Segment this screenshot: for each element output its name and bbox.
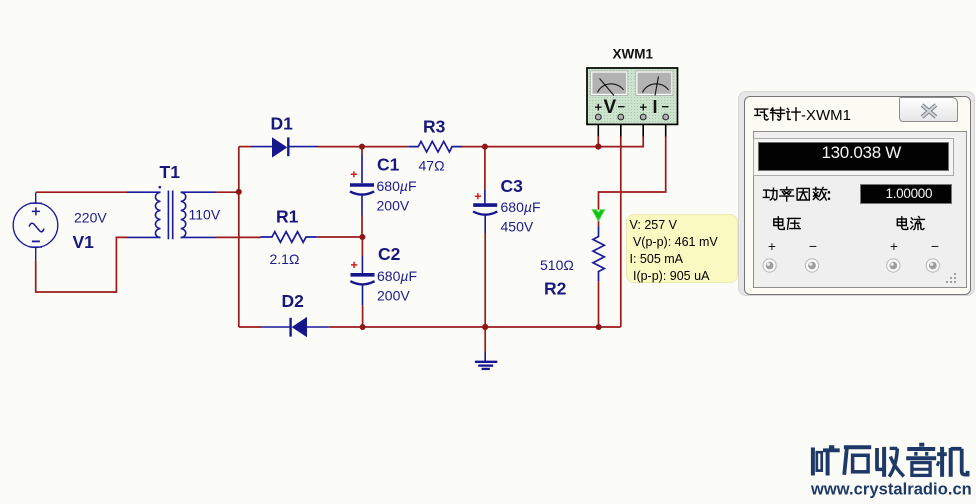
watermark logo kuang shi shou yin ji <box>813 445 968 477</box>
wire bottom rail left of D2 <box>239 326 262 328</box>
wire C3 top stub <box>484 147 486 190</box>
terminal I+ <box>887 259 900 272</box>
glyph shi <box>844 445 871 449</box>
terminal V- <box>805 259 818 272</box>
dialog content panel <box>753 131 967 288</box>
junction R3 C3 top rail <box>482 144 488 150</box>
probe tooltip yellow box <box>626 214 738 284</box>
wire bottom rail D2 to V- corner <box>329 326 621 328</box>
dialog main display <box>758 142 950 172</box>
wire V1 bottom loop <box>36 237 127 292</box>
wire top rail left of D1 <box>239 146 251 148</box>
wire R1 rail from T1 secondary bottom <box>216 236 261 238</box>
wattmeter dialog XWM1 <box>738 91 975 296</box>
wire R1 right to C node <box>317 236 363 238</box>
dialog plus minus terminal marks <box>765 239 779 254</box>
wire V1 top to T1 primary <box>36 191 127 193</box>
wire vertical bus D1-D2 <box>238 147 240 327</box>
dialog title text <box>755 108 800 121</box>
wire R2 bottom to rail <box>598 281 600 327</box>
wire C1 top stub <box>361 147 363 154</box>
junction R2 bottom rail <box>596 324 602 330</box>
junction T1 secondary to bus <box>236 189 242 195</box>
wire V- terminal drop to bottom rail <box>620 136 622 327</box>
terminal I- <box>926 259 939 272</box>
wire C1 bottom stub <box>361 216 363 238</box>
wire arrow to R2 top <box>598 221 600 227</box>
label voltage <box>774 217 801 230</box>
transformer phase dot <box>159 186 162 189</box>
close X glyph <box>922 105 936 117</box>
power factor display <box>860 184 952 204</box>
glyph kuang <box>811 448 815 476</box>
wire C3 bottom stub <box>484 233 486 327</box>
junction C1 top rail <box>359 144 365 150</box>
glyph shou <box>875 448 879 469</box>
AC source V1 <box>13 193 58 261</box>
junction C2 bottom rail <box>360 324 366 330</box>
junction R1 C1 C2 node <box>359 234 365 240</box>
svg-text:www.crystalradio.cn: www.crystalradio.cn <box>810 481 972 499</box>
wire top rail R3 to I+ elbow <box>462 136 643 147</box>
wire C2 top stub <box>361 237 363 256</box>
C2 plus mark <box>351 262 357 268</box>
dialog terminals SVG <box>753 248 967 288</box>
wire top rail D1 to R3 <box>318 146 408 148</box>
capacitor C1 <box>350 154 374 216</box>
label current <box>897 217 924 230</box>
capacitor C2 <box>350 256 374 305</box>
resize grip <box>946 273 956 283</box>
junction V+ top rail <box>595 144 601 150</box>
current probe green arrow <box>592 210 604 221</box>
wire C2 bottom stub <box>362 305 364 327</box>
resistor R1 <box>261 232 317 243</box>
wire ground stub <box>484 327 486 352</box>
wire V+ terminal drop <box>597 136 599 147</box>
glyph yin <box>919 443 924 447</box>
dialog main display frame <box>753 138 955 176</box>
resistor R3 <box>408 141 462 152</box>
capacitor C3 <box>473 190 497 233</box>
diode D1 <box>251 137 318 157</box>
glyph ji <box>940 447 944 477</box>
label power factor <box>763 187 827 201</box>
dialog close button <box>899 97 958 122</box>
diode D2 <box>262 317 329 337</box>
junction C3 ground bottom rail <box>482 324 488 330</box>
svg-text:-XWM1: -XWM1 <box>801 107 851 124</box>
ground <box>475 352 497 369</box>
C1 plus mark <box>351 171 357 177</box>
wire T1 secondary top to node bus <box>216 191 239 193</box>
wire I- terminal drop and route to R2 <box>599 136 666 210</box>
wire XWM1 pin leads black <box>597 120 599 136</box>
resistor R2 <box>593 226 604 281</box>
terminal V+ <box>763 259 776 272</box>
transformer T1 <box>127 191 216 240</box>
wattmeter XWM1 <box>587 68 678 124</box>
C3 plus mark <box>475 193 481 199</box>
